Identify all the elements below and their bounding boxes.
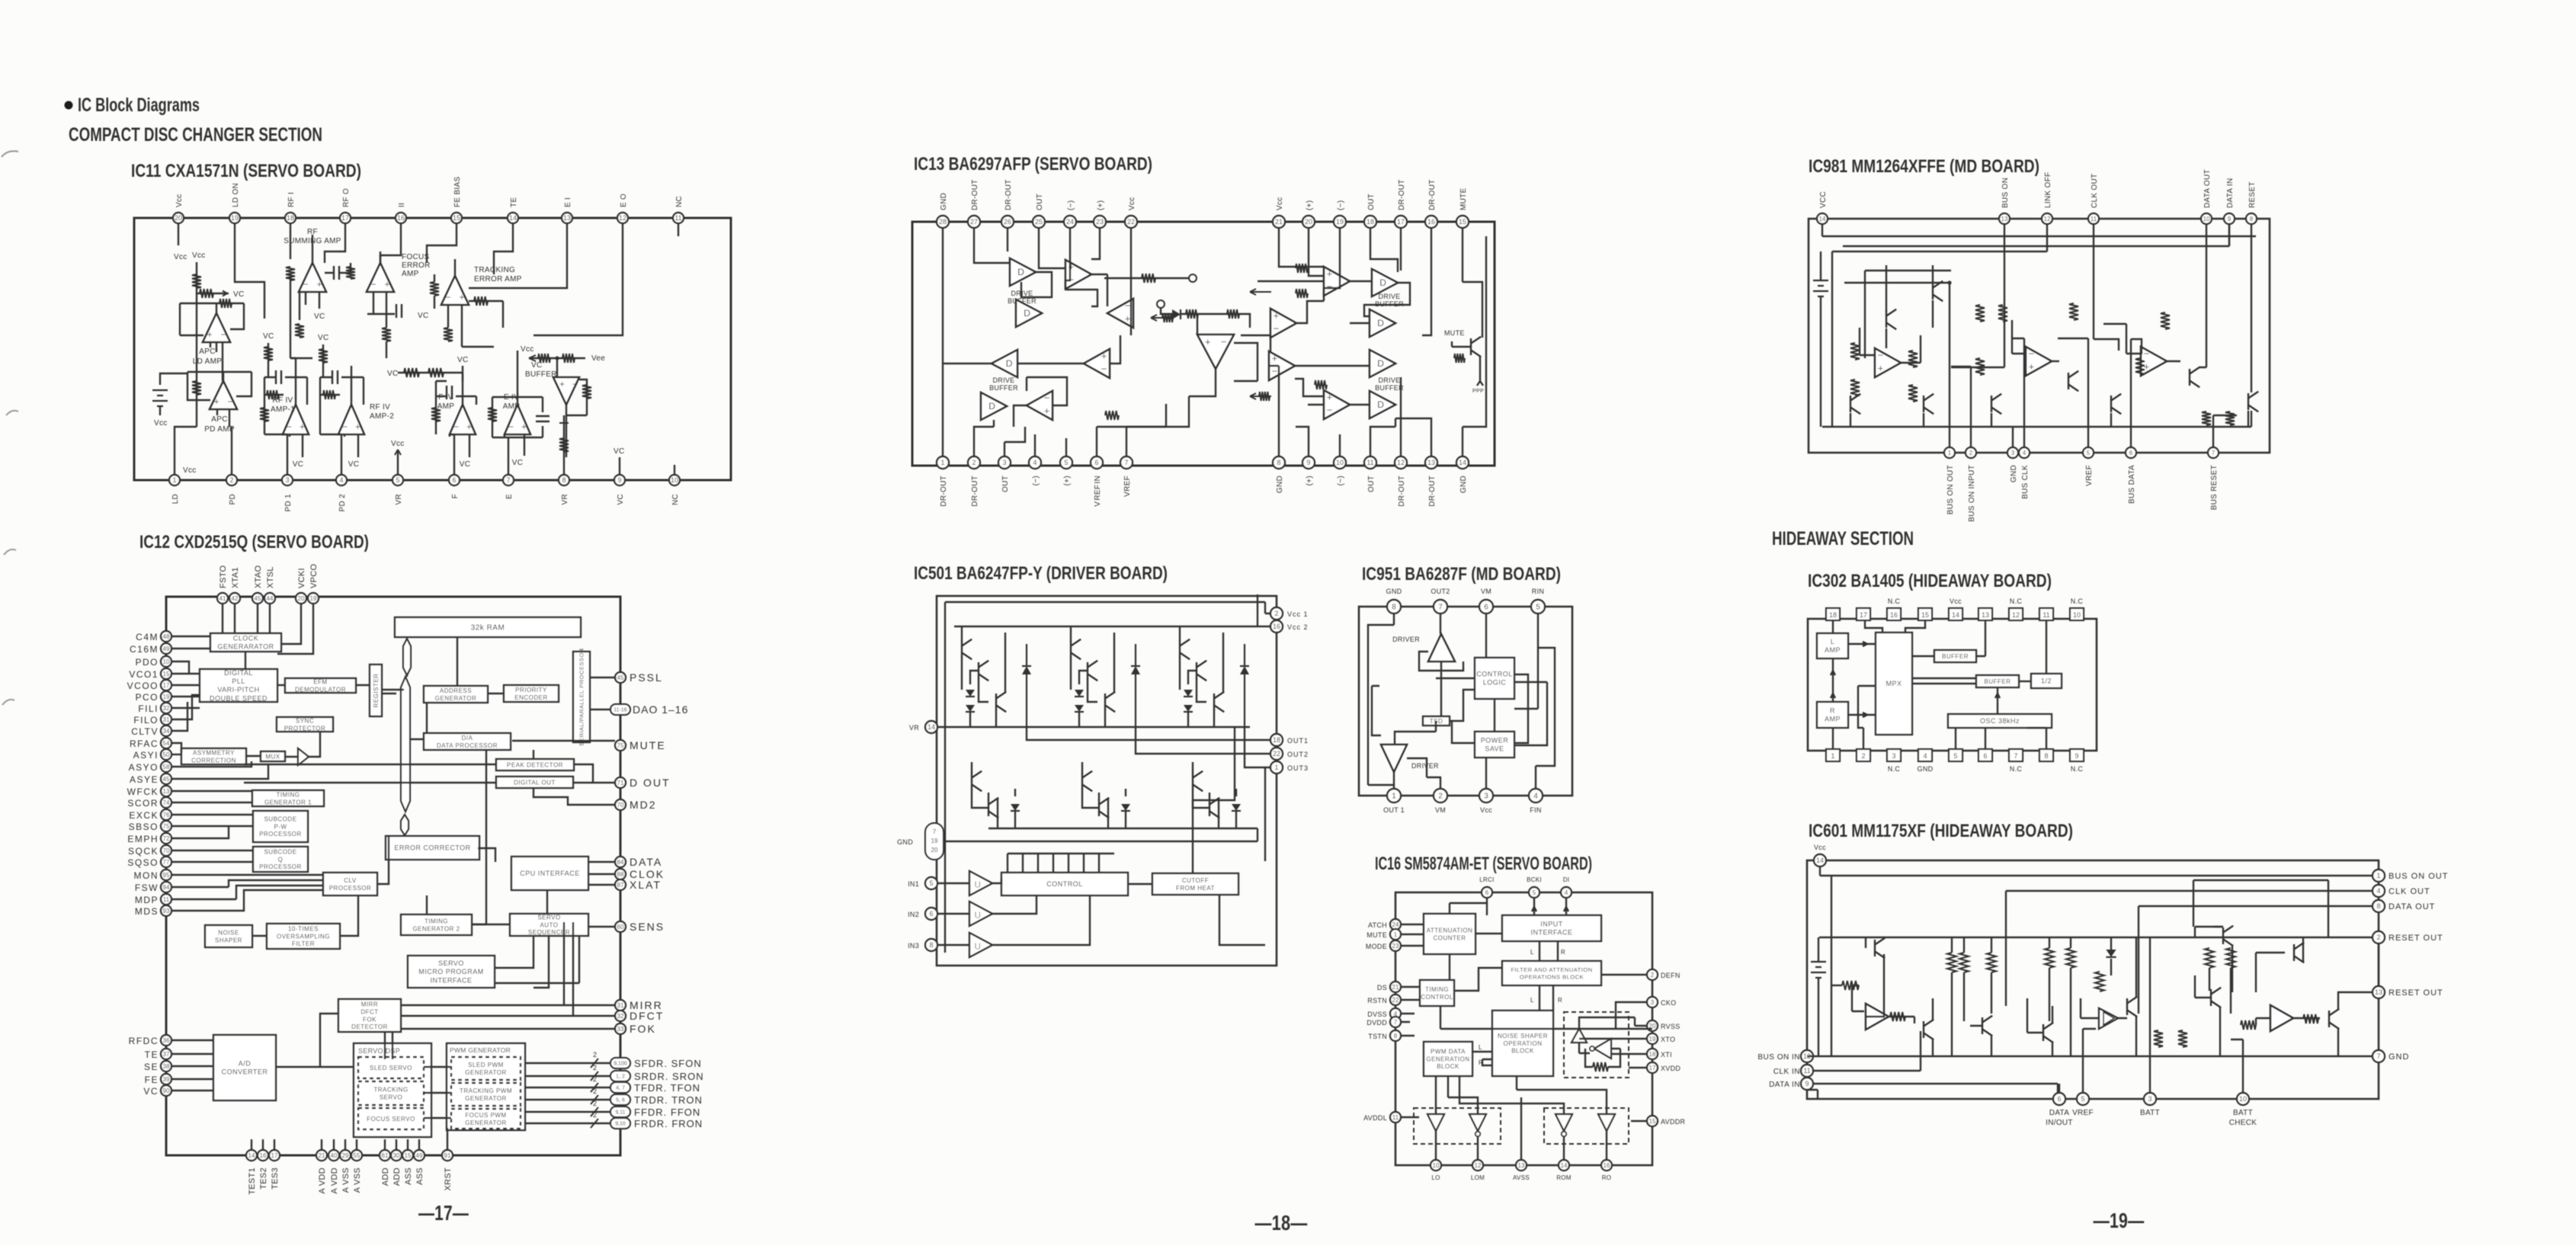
block MIRR DFCT FOK DETECTOR (338, 999, 401, 1032)
svg-text:10: 10 (1433, 1162, 1440, 1169)
svg-text:DR-OUT: DR-OUT (1428, 179, 1437, 210)
wire RF I long drop (290, 273, 312, 358)
IC12 pin 87 XLAT (615, 879, 626, 890)
wire amp2 out (2052, 360, 2059, 362)
IC501 pin 14 VR (925, 721, 937, 733)
comparator IC601 center (2099, 1008, 2118, 1029)
svg-text:42: 42 (232, 595, 239, 602)
IC981 pin 6 (2126, 447, 2136, 458)
wire BL2 up (1110, 335, 1120, 364)
wire RESET rail (1819, 937, 2373, 938)
wire cutoff up (1193, 727, 1235, 873)
svg-text:GENERATOR 2: GENERATOR 2 (412, 925, 460, 932)
svg-text:GENERATOR: GENERATOR (465, 1069, 506, 1076)
svg-text:4: 4 (1033, 459, 1036, 466)
svg-text:PWM DATA: PWM DATA (1431, 1048, 1466, 1055)
svg-text:ERROR CORRECTOR: ERROR CORRECTOR (394, 844, 470, 852)
wire pin1 trunk (1844, 282, 1951, 283)
resistor VC run 2 (428, 368, 444, 377)
IC501 pin 18 (1270, 734, 1283, 746)
wire BUS ON OUT riser (1949, 283, 1950, 447)
svg-text:MPX: MPX (1886, 680, 1902, 687)
svg-text:19: 19 (163, 693, 170, 700)
slash 2 mark (591, 1107, 598, 1116)
svg-text:N.C: N.C (2010, 597, 2023, 605)
svg-text:FE: FE (145, 1075, 159, 1085)
svg-text:XTSL: XTSL (266, 566, 275, 588)
wire pin1 rail to D BL-1 (943, 363, 992, 364)
block NOISE SHAPER (205, 925, 252, 947)
IC11 pin 12 (617, 213, 628, 223)
svg-text:BUS ON OUT: BUS ON OUT (1946, 465, 1955, 514)
IC16 pin 11 AVDDL (1390, 1112, 1401, 1123)
svg-text:BUS ON: BUS ON (2001, 178, 2010, 208)
svg-text:+: + (1044, 405, 1050, 416)
svg-text:LD: LD (171, 494, 180, 504)
svg-text:MUTE: MUTE (630, 739, 666, 751)
IC13 pin 17 (1395, 216, 1407, 228)
svg-text:Vcc: Vcc (1480, 806, 1492, 814)
block 1/2 (2031, 674, 2062, 688)
svg-text:19: 19 (310, 595, 317, 602)
transistor Q-c (1214, 692, 1224, 712)
IC12 pin 93 MDS (161, 905, 171, 916)
svg-text:VC: VC (233, 290, 245, 299)
svg-text:CONTROL: CONTROL (1046, 880, 1083, 888)
svg-text:6: 6 (929, 910, 933, 918)
svg-text:SLED SERVO: SLED SERVO (370, 1065, 412, 1071)
wire BUS RESET riser (2213, 415, 2237, 447)
wire RF IV-1 out up (290, 358, 296, 405)
svg-text:1: 1 (2376, 872, 2380, 879)
block OSC 38kHz (1948, 714, 2052, 728)
IC12 pin 19 PCO (161, 691, 171, 702)
diode center (1172, 309, 1181, 319)
wire pwm out TFDR. TFON (525, 1087, 610, 1088)
wire pin15 to mute transistor (1463, 228, 1482, 338)
wire tracking out right (469, 301, 503, 328)
resistor center2 (1227, 309, 1239, 319)
svg-text:SRDR. SRON: SRDR. SRON (634, 1071, 704, 1082)
wire diode to comparator (1181, 314, 1216, 335)
svg-text:VC: VC (314, 312, 325, 321)
IC951 pin 3 (1479, 789, 1493, 802)
block CONTROL LOGIC (1475, 658, 1514, 699)
svg-text:33: 33 (617, 1026, 624, 1033)
resistor IC601 (2154, 1030, 2163, 1047)
IC951 pin 6 (1479, 600, 1493, 613)
drive buffer D BL-1 (992, 350, 1017, 377)
IC12 pin 31 MIRR (615, 1000, 626, 1011)
wire VC drop col1 (268, 343, 269, 377)
wire pin14 TE (494, 223, 513, 274)
wire PDO (171, 661, 189, 674)
op-amp IC981-1 (1875, 348, 1901, 377)
svg-text:−: − (220, 329, 226, 340)
svg-text:TE: TE (145, 1049, 159, 1060)
IC302 pin 13 (1978, 608, 1992, 620)
svg-text:17: 17 (271, 1152, 278, 1159)
op-amp FOCUS ERROR AMP (367, 263, 394, 292)
IC13 pin 9 (1302, 456, 1315, 469)
IC11 pin 5 (392, 475, 403, 485)
svg-text:RESET OUT: RESET OUT (2389, 934, 2443, 943)
resistor center (1186, 309, 1198, 319)
wire seq micro link (495, 936, 579, 983)
svg-text:D OUT: D OUT (630, 777, 671, 789)
arrowhead left (529, 355, 536, 361)
IC13 pin 2 (968, 456, 980, 469)
driver triangle ROM (1556, 1114, 1572, 1136)
svg-text:FRDR. FRON: FRDR. FRON (634, 1118, 703, 1129)
resistor IC601 (1947, 953, 1956, 972)
wire battery top (160, 373, 187, 385)
IC13 pin 15 (1456, 216, 1469, 228)
svg-text:D: D (1379, 277, 1386, 288)
svg-text:DATA IN: DATA IN (1769, 1081, 1800, 1089)
block TSD (1423, 716, 1450, 725)
svg-text:DR-OUT: DR-OUT (971, 476, 979, 507)
svg-text:CKO: CKO (1661, 999, 1676, 1007)
diode (966, 705, 975, 712)
wire pin16 drop (1422, 228, 1431, 335)
IC12 pin 15 VCO1 (161, 668, 171, 679)
svg-text:−: − (1044, 392, 1050, 404)
svg-text:−: − (572, 379, 578, 389)
svg-text:+: + (1327, 392, 1333, 403)
driver triangle LOM (1469, 1114, 1486, 1136)
IC12 pin 39 FE (161, 1074, 171, 1084)
svg-text:2: 2 (1438, 793, 1443, 801)
svg-text:BUS ON IN: BUS ON IN (1757, 1053, 1800, 1062)
svg-text:DR-OUT: DR-OUT (1428, 476, 1437, 507)
svg-text:OPERATIONS BLOCK: OPERATIONS BLOCK (1520, 973, 1584, 980)
svg-text:XLAT: XLAT (630, 879, 662, 891)
capacitor IV1 (276, 370, 281, 384)
svg-text:MUX: MUX (265, 753, 280, 760)
svg-text:VM: VM (1481, 588, 1491, 595)
transistor Q-b (979, 661, 988, 681)
svg-text:13: 13 (2375, 988, 2382, 996)
svg-text:FIN: FIN (1530, 806, 1541, 814)
wire Vcc drops (962, 626, 1180, 633)
resistor (1162, 313, 1173, 322)
wire pin18 OUT (1370, 228, 1398, 272)
wire pins 4 5 6 stubs (1035, 427, 1097, 456)
wire left rail (1831, 251, 1833, 427)
wire interface to filter L R (1540, 941, 1558, 961)
wire XTO (1579, 1038, 1647, 1039)
svg-text:18: 18 (1649, 1051, 1656, 1058)
svg-text:9: 9 (1805, 1080, 1809, 1087)
block PEAK DETECTOR (496, 759, 574, 770)
IC12 pin 41 (217, 593, 228, 604)
IC11 pin 20 (173, 213, 184, 223)
wire R AMP to pin1 (1832, 728, 1834, 749)
wire BR to D (1295, 365, 1370, 367)
svg-text:MUTE: MUTE (1444, 329, 1465, 337)
svg-text:ERROR AMP: ERROR AMP (474, 275, 522, 283)
IC12 pin 72 EMPH (161, 833, 171, 844)
svg-text:OVERSAMPLING: OVERSAMPLING (277, 933, 330, 940)
wire L AMP to MPX (1848, 642, 1876, 646)
wire emitter drops (1850, 411, 2248, 427)
svg-text:D: D (1006, 358, 1013, 369)
wire RVSS into osc (1579, 1017, 1647, 1029)
svg-text:TRDR. TRON: TRDR. TRON (634, 1094, 703, 1106)
wire Q emitters (1933, 998, 2052, 1056)
IC16 pin 6 (1482, 887, 1492, 898)
wire AD inputs (171, 1040, 213, 1091)
op-amp TRACKING ERROR AMP (441, 276, 469, 305)
wire right res columns (2209, 968, 2231, 1056)
svg-text:FSTO: FSTO (219, 565, 228, 588)
svg-text:PROCESSOR: PROCESSOR (259, 863, 302, 870)
op-amp BR-2 (1324, 390, 1350, 419)
wire amp1 loop top (1865, 271, 1951, 358)
svg-text:WFCK: WFCK (127, 786, 159, 797)
svg-text:15: 15 (1921, 611, 1929, 619)
svg-text:COUNTER: COUNTER (1433, 934, 1466, 941)
battery IC981 (1813, 280, 1828, 296)
svg-text:AMP-2: AMP-2 (370, 412, 394, 421)
IC12 pin 36 RFDC (161, 1035, 171, 1046)
wire counter to timing (1449, 954, 1450, 980)
IC981 pin 7 (2208, 447, 2219, 458)
svg-text:IC981 MM1264XFFE (MD BOARD): IC981 MM1264XFFE (MD BOARD) (1809, 156, 2039, 177)
wire control to cutoff (1128, 883, 1152, 885)
arrow (218, 291, 227, 296)
svg-text:19: 19 (1649, 1036, 1656, 1043)
IC981 pin 5 (2083, 447, 2094, 458)
wire C16M to clock gen (171, 648, 210, 649)
svg-text:SFDR. SFON: SFDR. SFON (634, 1058, 702, 1069)
terminal arrow right2 (1250, 393, 1271, 399)
wire to detector (320, 1014, 338, 1067)
svg-text:45: 45 (163, 776, 170, 783)
scan artifact dash 1 (2, 151, 18, 157)
wire ASYE (171, 764, 268, 779)
transistor IC981 Q7 (2190, 367, 2200, 387)
svg-text:75: 75 (163, 823, 170, 830)
wire OUT2 (1136, 727, 1270, 754)
wire driver down (1436, 661, 1475, 716)
svg-text:DI: DI (1563, 876, 1570, 883)
svg-text:DFCT: DFCT (360, 1008, 378, 1015)
svg-text:IC302 BA1405 (HIDEAWAY BOAR: IC302 BA1405 (HIDEAWAY BOARD) (1808, 571, 2052, 591)
svg-text:4, 7: 4, 7 (616, 1086, 625, 1091)
svg-text:41: 41 (219, 595, 226, 602)
resistor IC981 (1908, 351, 1918, 367)
IC11 pin 16 (396, 213, 406, 223)
IC11 pin 6 (449, 475, 460, 485)
diode (1121, 804, 1130, 811)
svg-text:12: 12 (2044, 216, 2051, 223)
resistor IC601 (2226, 948, 2235, 968)
IC12 pin 55 (351, 1150, 362, 1161)
block SLED PWM GENERATOR (451, 1057, 521, 1080)
wire pin5 VR (397, 450, 399, 475)
IC981 pin 14 (1817, 213, 1828, 224)
svg-text:1: 1 (1274, 764, 1278, 771)
IC16 pin 18 XTI (1647, 1049, 1658, 1059)
svg-text:IC501 BA6247FP-Y (DRIVER BO: IC501 BA6247FP-Y (DRIVER BOARD) (914, 563, 1168, 584)
svg-text:−: − (342, 421, 348, 432)
svg-text:2: 2 (593, 1100, 597, 1107)
wire TR2 feedback (1296, 289, 1324, 323)
svg-text:11-16: 11-16 (614, 708, 626, 713)
wire cpu to sequencer (546, 890, 548, 914)
svg-text:VC: VC (512, 459, 524, 467)
wire buf3 to control (992, 895, 1090, 945)
wire focus VC run (367, 313, 395, 315)
resistor IC601 (2205, 948, 2214, 968)
wire control tick 1 (1022, 854, 1024, 873)
svg-text:(−): (−) (1032, 476, 1040, 485)
driver triangle up (1428, 634, 1455, 661)
svg-text:2: 2 (1651, 972, 1655, 979)
wire pin2 PD (231, 427, 232, 475)
wire Q7 pnp link (2195, 927, 2232, 992)
wire comparator feedback (1234, 343, 1258, 381)
wire OUT1 (1027, 727, 1270, 740)
svg-text:+: + (459, 292, 464, 303)
svg-text:38: 38 (163, 1063, 170, 1070)
IC11 pin 17 (340, 213, 351, 223)
svg-text:TFDR. TFON: TFDR. TFON (634, 1082, 700, 1094)
scan artifact dash 3 (4, 549, 16, 555)
svg-text:PRIORITY: PRIORITY (515, 687, 547, 693)
svg-text:PD 2: PD 2 (338, 494, 347, 512)
IC13 pin 13 (1425, 456, 1437, 469)
wire amp1 in (1860, 328, 1875, 355)
wire comparator out to VREF (1126, 369, 1216, 456)
wire ram to addrgen (457, 637, 458, 686)
svg-text:CLV: CLV (344, 877, 357, 884)
wire micro to seq (495, 936, 533, 968)
wire control right loop (1514, 674, 1528, 743)
wire pwm out FFDR. FFON (525, 1111, 610, 1113)
svg-text:95: 95 (163, 872, 170, 879)
svg-text:OSC 38kHz: OSC 38kHz (1980, 717, 2020, 725)
wire comparator right in (1216, 314, 1250, 328)
IC13 pin 20 (1302, 216, 1315, 228)
svg-text:70: 70 (617, 802, 624, 809)
svg-text:DEFN: DEFN (1661, 972, 1680, 979)
svg-text:CLK IN: CLK IN (1773, 1068, 1800, 1076)
IC951 pin 2 (1434, 789, 1447, 802)
diode (1232, 804, 1241, 811)
IC16 pin 24 ATCH (1390, 919, 1401, 930)
wire pin14 GND to top (1463, 236, 1486, 456)
svg-text:OUT 1: OUT 1 (1383, 806, 1405, 814)
wire SQSO (171, 861, 253, 863)
wire mux to buf (285, 756, 298, 758)
svg-text:SERVO: SERVO (537, 914, 560, 921)
block NOISE SHAPER OPERATION BLOCK (1492, 1011, 1553, 1076)
battery Vcc (152, 390, 168, 406)
block SERIAL/PARALLEL PROCESSOR (573, 648, 590, 745)
block CLV PROCESSOR (323, 873, 377, 895)
svg-text:PROTECTOR: PROTECTOR (284, 725, 326, 732)
svg-text:6: 6 (1983, 752, 1987, 760)
wire right trunk drop (2328, 880, 2329, 937)
IC601 pin 13 (2373, 986, 2385, 998)
wire pin5 RIN (1514, 613, 1538, 709)
svg-text:VC: VC (457, 356, 469, 364)
transistor Q-b (1088, 661, 1097, 681)
svg-text:GND: GND (2389, 1052, 2409, 1062)
IC12 pin 32 FILI (161, 703, 171, 713)
IC12 pin 45 ASYE (161, 774, 171, 784)
wire pin25 to amp (1039, 228, 1065, 268)
svg-text:VREF: VREF (2085, 465, 2094, 486)
wire buf up to sync (309, 732, 320, 757)
svg-text:3: 3 (2011, 450, 2015, 456)
IC501 BA6247FP-Y outline (937, 596, 1277, 966)
svg-text:AVDDL: AVDDL (1363, 1114, 1387, 1122)
svg-text:C4M: C4M (136, 632, 159, 642)
svg-text:+: + (559, 379, 565, 389)
terminal circle TL (1189, 274, 1197, 282)
svg-text:INTERFACE: INTERFACE (1530, 929, 1572, 937)
svg-text:OUT1: OUT1 (1287, 737, 1309, 745)
svg-text:BLOCK: BLOCK (1437, 1063, 1459, 1070)
svg-text:RSTN: RSTN (1367, 997, 1387, 1004)
svg-text:DATA: DATA (2049, 1109, 2069, 1117)
IC12 pin 58 ASYO (161, 761, 171, 772)
op-amp IC981-3 (2141, 347, 2167, 376)
IC302 pin 18 (1826, 608, 1840, 620)
resistor buffer fb (582, 385, 591, 399)
terminal circle (1157, 300, 1165, 308)
wire pin8 GND path (1368, 613, 1394, 785)
block 10-TIMES OVERSAMPLING FILTER (267, 924, 340, 949)
svg-text:SE: SE (144, 1062, 159, 1072)
wire pin to buffer IN1 (937, 882, 969, 884)
wire BUS DATA riser (2131, 339, 2142, 447)
svg-text:3: 3 (2148, 1095, 2151, 1103)
svg-text:DRIVE: DRIVE (992, 376, 1014, 384)
wire BR2 to D2 (1350, 404, 1370, 405)
wire pin6 to control (1485, 613, 1487, 658)
IC981 pin 9 (2224, 213, 2235, 224)
diode (1184, 690, 1193, 697)
IC981 pin 4 (2019, 447, 2030, 458)
wire amp2 in (2012, 320, 2026, 354)
IC11 pin 11 (673, 213, 684, 223)
drive buffer D TL-2 (1016, 299, 1042, 327)
svg-text:RF I: RF I (287, 192, 296, 207)
svg-text:E: E (505, 494, 514, 499)
svg-text:CONTROL: CONTROL (1476, 671, 1513, 678)
svg-text:VREF: VREF (2072, 1109, 2094, 1117)
svg-text:−: − (445, 292, 450, 303)
IC12 pins 9,10 (610, 1118, 630, 1129)
wire pwm out SFDR. SFON (525, 1062, 610, 1064)
IC12 pin 38 SE (161, 1061, 171, 1071)
IC12 pin 37 TE (161, 1049, 171, 1059)
block MPX (1876, 633, 1912, 735)
svg-text:FILTER: FILTER (292, 940, 315, 947)
IC12 pin 76 EXCK (161, 809, 171, 820)
wire pin19 LD ON (235, 223, 264, 319)
wire L to R amp (1831, 658, 1835, 702)
wire pin to buffer IN3 (937, 944, 969, 946)
IC13 pin 22 (1125, 216, 1137, 228)
svg-text:E I: E I (564, 197, 572, 207)
IC12 pin 30 (391, 1150, 402, 1161)
